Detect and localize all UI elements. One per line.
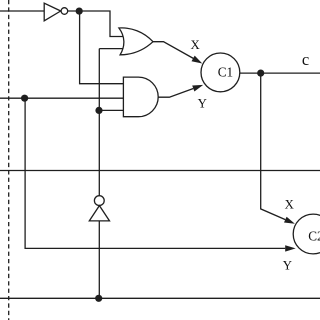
- svg-text:Y: Y: [283, 259, 292, 273]
- svg-text:C1: C1: [218, 65, 233, 80]
- svg-text:X: X: [190, 38, 200, 52]
- svg-text:C2: C2: [308, 228, 320, 243]
- svg-text:X: X: [285, 198, 295, 212]
- svg-text:Y: Y: [198, 96, 207, 110]
- svg-text:c: c: [302, 50, 309, 69]
